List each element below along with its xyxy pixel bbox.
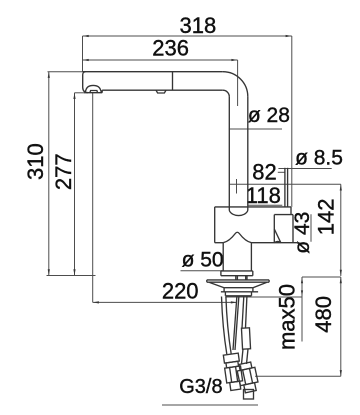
spray head step (101, 90, 103, 93)
svg-text:220: 220 (162, 278, 199, 303)
mounting nut left edge (223, 288, 225, 292)
dimension 220 right arrow (231, 301, 237, 303)
pipe left edge down (228, 97, 230, 211)
left hose right line (226, 297, 231, 355)
dimension 318 right arrow (286, 35, 292, 37)
right hose connector (236, 361, 260, 393)
witness line max50 bottom (225, 296, 302, 298)
column left edge (222, 243, 224, 271)
handle mid ridge (287, 168, 289, 207)
body block right upper edge (290, 207, 292, 215)
spout bottom edge (102, 89, 223, 91)
svg-text:277: 277 (51, 153, 76, 190)
svg-text:ø 50: ø 50 (182, 249, 224, 272)
collar bottom (221, 275, 253, 277)
body block bottom right (251, 242, 299, 244)
collar right edge (252, 271, 254, 276)
deck plate top (207, 279, 269, 281)
witness line 277 top (75, 92, 86, 94)
svg-text:ø 43: ø 43 (291, 212, 314, 254)
svg-text:max50: max50 (274, 284, 299, 350)
leader line diameter 43 (310, 214, 312, 242)
locknut right edge (251, 292, 253, 296)
svg-text:480: 480 (311, 296, 336, 333)
dimension 142 top arrow (340, 184, 342, 190)
stem 1 (235, 276, 237, 280)
right hose lower left line (242, 349, 244, 364)
leader line diameter 8.5 (278, 168, 331, 170)
leader line G3/8 (162, 404, 258, 406)
plate cone right slant (253, 282, 267, 288)
right hose upper left line (242, 297, 244, 329)
dimension 277 bottom arrow (73, 269, 75, 275)
pipe axis tick (236, 179, 238, 194)
locknut left edge (224, 292, 226, 296)
collar left edge (220, 271, 222, 276)
spray nozzle mouth (90, 91, 98, 93)
body block bottom left (215, 242, 224, 244)
body bell curve (223, 232, 251, 242)
body block left edge (214, 207, 216, 243)
stem 2 (236, 276, 238, 280)
plate cone left slant (209, 282, 224, 288)
spray head seam (172, 72, 174, 91)
svg-text:ø 28: ø 28 (248, 104, 290, 127)
dimension 236 right arrow (231, 59, 237, 61)
spray head left end (83, 72, 88, 93)
locknut bottom line (225, 295, 251, 297)
spout outer elbow arc (223, 72, 248, 97)
dimension 310 top arrow (48, 72, 50, 78)
spray nozzle dome (85, 85, 101, 92)
label 118 line (248, 204, 283, 206)
left hose connector (223, 353, 244, 391)
label 82 line (278, 171, 285, 173)
svg-text:ø 8.5: ø 8.5 (295, 147, 343, 170)
column right edge (250, 243, 252, 271)
witness line 236 right (237, 60, 239, 106)
svg-text:142: 142 (314, 199, 339, 236)
hose saddle curve (229, 211, 248, 216)
spray toggle button (156, 90, 166, 93)
handle left edge (284, 168, 286, 207)
witness line 318 right (291, 36, 293, 207)
body inner vertical (273, 215, 275, 243)
dimension 220 line (93, 301, 237, 303)
dimension 480 top arrow (340, 277, 342, 283)
deck reference line (47, 275, 96, 277)
deck plate lower line (207, 281, 269, 283)
mounting nut right edge (252, 288, 254, 292)
dimension 318 left arrow (83, 35, 89, 37)
witness line deck right (302, 276, 341, 278)
right hose lower right line (247, 349, 249, 364)
dimension 142 line (340, 184, 342, 276)
stem 4 (246, 276, 248, 280)
svg-text:236: 236 (152, 36, 189, 61)
witness line 142 top (230, 183, 341, 185)
collar top (221, 270, 253, 272)
dimension 142 bottom arrow (340, 270, 342, 276)
dimension 310 line (48, 72, 50, 276)
deck plate right end (268, 280, 270, 282)
lever wedge diagonal (274, 229, 281, 243)
spout right edge down (247, 97, 249, 211)
mounting nut flange line (221, 291, 258, 293)
leader line diameter 28 (229, 128, 282, 130)
body block right step (274, 214, 293, 216)
spout top edge (83, 71, 223, 73)
left hose left line (222, 297, 227, 355)
spout inner elbow arc (223, 90, 230, 97)
dimension 220 left arrow (93, 301, 99, 303)
spray head base line (84, 92, 102, 94)
dimension 310 bottom arrow (48, 269, 50, 275)
stem 3 (245, 276, 247, 280)
witness line 220 left (92, 93, 94, 302)
svg-text:118: 118 (246, 183, 281, 208)
body block top (215, 206, 291, 208)
witness line 310 top (48, 71, 84, 73)
svg-text:318: 318 (180, 13, 217, 38)
dimension 318 line (83, 35, 292, 37)
mounting nut top line (224, 287, 253, 289)
witness line 318 left (82, 36, 84, 72)
lever wedge foot (274, 241, 281, 242)
dimension max50 bottom arrow (301, 290, 303, 296)
svg-text:82: 82 (252, 160, 276, 185)
threaded stud left line (233, 296, 237, 350)
leader line diameter 50 (181, 270, 224, 272)
right connector tip (244, 390, 254, 400)
dimension 277 line (74, 93, 76, 276)
dimension max50 line (301, 277, 303, 342)
deck plate left end (206, 280, 208, 282)
dimension 236 left arrow (83, 59, 89, 61)
body block right lower edge (292, 215, 294, 243)
dimension 480 bottom arrow (340, 370, 342, 376)
dimension 236 line (83, 59, 238, 61)
dimension 277 top arrow (73, 93, 75, 99)
right hose upper right line (246, 297, 247, 329)
dimension max50 top arrow (301, 277, 303, 283)
right hose fitting (241, 328, 250, 349)
witness line 480 bottom (255, 375, 341, 377)
dimension 480 line (340, 277, 342, 376)
threaded stud right line (235, 296, 239, 350)
svg-text:310: 310 (23, 143, 48, 180)
svg-text:G3/8: G3/8 (179, 376, 222, 398)
